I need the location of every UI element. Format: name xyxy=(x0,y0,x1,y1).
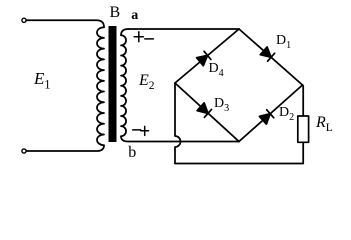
label E1 xyxy=(34,69,51,89)
secondary winding L2 xyxy=(121,35,126,136)
resistor RL body xyxy=(298,116,309,142)
label D2 xyxy=(279,105,294,121)
label D3 xyxy=(214,96,229,112)
bridge edge top-right xyxy=(239,29,303,85)
label B xyxy=(110,4,121,22)
bridge edge bottom-right xyxy=(239,85,303,142)
label E2 xyxy=(139,72,155,90)
label b xyxy=(128,144,136,162)
wire right node to RL top xyxy=(302,85,305,116)
primary winding L1 xyxy=(97,27,104,145)
wire bottom return xyxy=(175,142,303,163)
diode D3 xyxy=(197,103,211,117)
bridge edge left-top xyxy=(175,29,239,83)
terminal bottom-left xyxy=(22,149,26,153)
diode D1 xyxy=(260,47,274,61)
wire left node down with hop over b wire xyxy=(175,83,181,164)
polarity marks top (plus minus) xyxy=(134,32,153,42)
polarity marks bottom (minus plus) xyxy=(133,126,149,135)
label a xyxy=(131,8,138,24)
label RL xyxy=(316,114,333,132)
bridge edge left-bottom xyxy=(175,83,239,142)
secondary winding bottom hook xyxy=(121,136,129,141)
diode D4 xyxy=(197,51,211,65)
diode D2 xyxy=(259,110,273,124)
wire primary bottom xyxy=(26,145,104,151)
label D1 xyxy=(276,33,291,49)
wire node b to bridge bottom xyxy=(129,141,240,143)
wire primary top xyxy=(26,20,104,27)
label D4 xyxy=(209,61,224,77)
secondary winding top hook xyxy=(121,29,129,35)
wire node a to bridge top xyxy=(129,28,240,30)
terminal top-left xyxy=(22,18,26,22)
transformer core B xyxy=(109,26,117,142)
